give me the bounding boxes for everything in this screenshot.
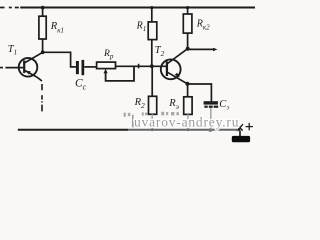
- junction dot base node T2: [150, 64, 154, 68]
- wire R1 to base node: [151, 40, 153, 67]
- bottom rail: [18, 129, 240, 131]
- transistor T2: [161, 49, 188, 84]
- wire Rк1 to collector node: [42, 39, 44, 52]
- resistor Rp trimmer body: [97, 62, 116, 69]
- output wire with arrow: [188, 48, 218, 52]
- plus terminal tick: [237, 124, 243, 131]
- top power rail chain-dash left end: [0, 7, 19, 9]
- resistor Rк2: [183, 14, 192, 33]
- terminal black bar: [232, 136, 250, 142]
- trimmer wiper arrow and return wire: [104, 64, 139, 81]
- capacitor Cc: [76, 60, 84, 75]
- terminal lead below rail: [239, 131, 241, 137]
- resistor Rэ: [184, 97, 192, 115]
- svg-text:T1: T1: [8, 44, 17, 57]
- top power rail: [20, 7, 255, 9]
- wire R2 to bottom rail (faded by watermark): [151, 114, 153, 129]
- wire Rк2 to collector node T2: [187, 33, 189, 49]
- wire collector T1 to coupling cap: [43, 52, 76, 67]
- plus sign: [246, 123, 253, 130]
- watermark remnant marks: [124, 112, 179, 117]
- junction dot Rэ/rail: [187, 128, 190, 131]
- junction dot top rail / Rk2: [186, 6, 189, 9]
- svg-text:Rр: Rр: [103, 49, 114, 61]
- wire Rэ to bottom rail (faded by watermark): [187, 114, 189, 129]
- watermark leading bar: [132, 115, 134, 128]
- svg-text:Rк1: Rк1: [50, 21, 64, 34]
- svg-text:T2: T2: [155, 45, 165, 58]
- node collector T1: [41, 50, 45, 54]
- svg-text:R1: R1: [136, 20, 147, 33]
- wire rail to Rк1: [42, 8, 44, 17]
- wire Cc to Rp: [84, 66, 96, 68]
- wire emitter node to Cэ: [187, 84, 211, 101]
- resistor R2: [149, 96, 157, 114]
- wire Rp to base T2: [116, 65, 167, 67]
- svg-text:Rк2: Rк2: [196, 18, 210, 31]
- wire rail to R1: [151, 8, 153, 22]
- emitter node T2: [185, 82, 189, 86]
- wire Cэ to bottom rail (faded by watermark): [210, 108, 212, 130]
- resistor Rк1: [39, 16, 46, 39]
- svg-text:R2: R2: [134, 97, 145, 110]
- wire rail to Rк2: [187, 8, 189, 15]
- wire emitter node to Rэ: [187, 84, 189, 97]
- junction dot top rail / Rk1: [41, 6, 45, 10]
- junction dot top rail / R1: [150, 6, 153, 9]
- node collector T2: [186, 47, 190, 51]
- wire base T1: [5, 67, 23, 69]
- wire base node to R2: [151, 66, 153, 96]
- transistor T1: [19, 52, 43, 81]
- junction dot Cэ/rail: [209, 128, 213, 132]
- junction dot R2/rail: [151, 128, 154, 131]
- svg-text:Cc: Cc: [75, 78, 87, 92]
- svg-text:Rэ: Rэ: [168, 98, 179, 111]
- wire base T1 (dash at edge): [0, 67, 3, 69]
- watermark halo over rail: [128, 128, 238, 132]
- svg-text:uvarov-andrey.ru: uvarov-andrey.ru: [134, 115, 239, 130]
- dashed emitter lead T1: [41, 84, 43, 111]
- resistor R1: [148, 22, 157, 40]
- svg-text:Cэ: Cэ: [219, 99, 229, 111]
- capacitor Cэ electrolytic: [204, 101, 219, 107]
